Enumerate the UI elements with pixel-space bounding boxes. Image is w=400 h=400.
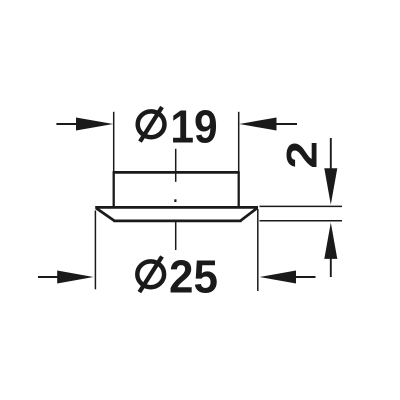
thickness dim lower tail [330, 258, 332, 277]
dia19 right arrowhead [239, 118, 276, 131]
centerline lower dash [175, 222, 177, 251]
cap body right edge [238, 171, 240, 206]
thickness dim upper tail [330, 138, 332, 172]
dia25 left extension line [94, 211, 96, 290]
dia19 left extension line [113, 112, 115, 171]
thickness dim upper arrowhead (points down) [324, 168, 337, 204]
dia25 label diameter symbol slash [139, 257, 162, 293]
dia19 label diameter symbol circle [138, 111, 165, 137]
svg-text:25: 25 [169, 251, 218, 303]
dia25 right dimension tail [295, 276, 316, 278]
dia19 right extension line [238, 112, 240, 171]
svg-text:2: 2 [278, 141, 326, 169]
flange right chamfer [240, 208, 257, 221]
flange top edge [95, 206, 258, 209]
dia25 label diameter symbol circle [137, 261, 164, 287]
centerline upper dash [175, 149, 177, 182]
flange bottom right extension line [260, 220, 343, 222]
flange top right extension line [260, 205, 343, 207]
cap body left edge [113, 171, 115, 206]
svg-text:19: 19 [170, 102, 217, 153]
dia19 right dimension tail [276, 123, 298, 125]
dia19 left arrowhead [76, 118, 113, 131]
dia25 left dimension tail [38, 276, 59, 278]
dia19 left dimension tail [56, 123, 78, 125]
dia25 left arrowhead [57, 271, 93, 284]
dia25 right arrowhead [260, 271, 296, 284]
centerline dot [174, 199, 176, 202]
flange bottom edge [113, 220, 241, 223]
flange left chamfer [96, 208, 115, 221]
cap body top edge [113, 171, 239, 174]
dia25 right extension line [257, 209, 259, 291]
dia19 label diameter symbol slash [140, 107, 162, 142]
thickness dim lower arrowhead (points up) [324, 223, 337, 259]
